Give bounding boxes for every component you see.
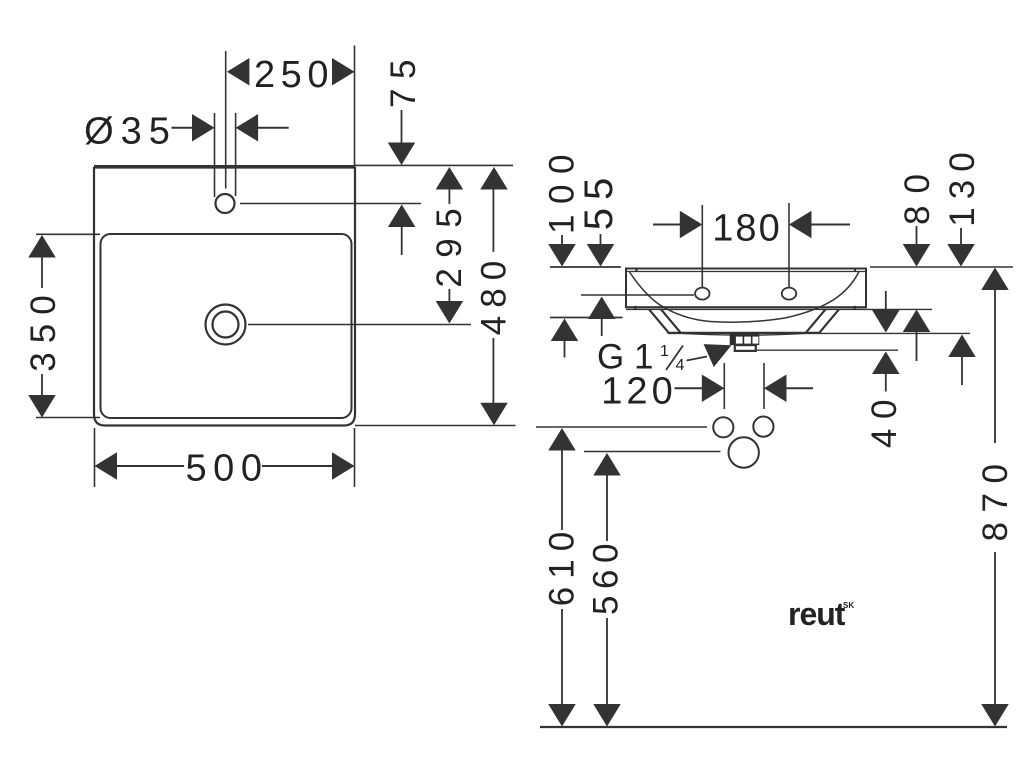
dimension 560 lower stem bbox=[606, 618, 608, 704]
dimension 870 lower stem bbox=[994, 552, 996, 704]
dimension 55 stem bbox=[600, 234, 602, 244]
dimension 295 arrow up bbox=[436, 167, 464, 190]
rim bevel tick top right bbox=[854, 269, 856, 272]
svg-text:870: 870 bbox=[976, 455, 1015, 542]
body bottom line bbox=[668, 332, 822, 334]
rim outline bbox=[626, 269, 866, 308]
dimension 120 extension right bbox=[763, 363, 765, 409]
dimension 100 arrow down bbox=[548, 244, 576, 267]
dimension 55 lower arrow up bbox=[588, 297, 616, 320]
dimension 870 upper stem bbox=[994, 290, 996, 443]
faucet hole bbox=[216, 194, 235, 213]
svg-text:4: 4 bbox=[676, 357, 685, 374]
taper right outer bbox=[820, 309, 840, 332]
body bottom sag curve bbox=[672, 333, 815, 335]
dimension 500 extension left bbox=[94, 428, 96, 487]
dimension 250 arrow left bbox=[227, 58, 250, 85]
dimension 500 extension right bbox=[354, 428, 356, 487]
dimension 560 arrow up bbox=[593, 453, 621, 476]
hole stem right bbox=[788, 203, 790, 287]
dimension 55 arrow down bbox=[587, 244, 615, 267]
reference line front lip bbox=[550, 317, 623, 319]
faucet hole centerline extension bbox=[240, 203, 421, 205]
dimension 350 upper stem bbox=[41, 258, 43, 289]
svg-text:Ø35: Ø35 bbox=[84, 111, 177, 153]
overflow hole left bbox=[695, 288, 709, 300]
drain flange slot 2 bbox=[744, 337, 751, 344]
drain centerline bbox=[584, 451, 721, 453]
svg-text:295: 295 bbox=[430, 198, 469, 288]
svg-text:100: 100 bbox=[543, 144, 582, 234]
rim bevel tick bottom left bbox=[634, 306, 636, 309]
body bottom extension right bbox=[821, 332, 970, 334]
basin inner bowl bbox=[101, 234, 352, 418]
dimension 500 left line bbox=[117, 465, 184, 467]
svg-text:reut: reut bbox=[788, 596, 846, 632]
reference line top right bbox=[870, 266, 1013, 268]
overflow hole right bbox=[782, 288, 796, 300]
svg-text:560: 560 bbox=[587, 537, 626, 615]
dimension 130 stem bbox=[960, 228, 962, 244]
dimension 80 stem bbox=[916, 226, 918, 244]
dimension 100 stem bbox=[561, 235, 563, 244]
drain hole center bbox=[729, 437, 759, 467]
dia35 arrow left bbox=[236, 114, 259, 142]
dimension 120 extension left bbox=[723, 363, 725, 409]
dimension 130 lower arrow up bbox=[948, 335, 976, 358]
dimension 870 arrow up bbox=[981, 268, 1009, 291]
dimension 480 arrow up bbox=[480, 167, 508, 190]
svg-text:120: 120 bbox=[601, 370, 676, 412]
dia35 leader left stem bbox=[172, 127, 193, 129]
basin top edge extension right bbox=[355, 164, 513, 166]
rim bevel tick bottom right bbox=[854, 306, 856, 309]
supply hole right bbox=[753, 417, 773, 437]
hole stem left bbox=[701, 205, 703, 287]
dimension 560 upper stem bbox=[606, 476, 608, 542]
basin inner curve bbox=[630, 272, 860, 323]
dimension 560 arrow down bbox=[593, 704, 621, 727]
dimension 130 arrow down bbox=[947, 244, 975, 267]
faucet hole centerline bbox=[225, 51, 227, 189]
rim bevel tick top left bbox=[635, 269, 637, 272]
basin top edge (thick) bbox=[94, 165, 355, 169]
dimension 295 upper stem bbox=[448, 189, 450, 205]
extension line right of 250 bbox=[354, 46, 356, 166]
svg-text:55: 55 bbox=[577, 170, 621, 231]
dimension 250 arrow right bbox=[332, 58, 355, 85]
svg-text:80: 80 bbox=[898, 162, 937, 225]
G leader arrow bbox=[704, 344, 732, 367]
dimension 180 left stem bbox=[653, 224, 680, 226]
dimension 55 lower stem bbox=[601, 319, 603, 336]
drain inner circle bbox=[213, 312, 239, 338]
dimension 610 arrow down bbox=[548, 704, 576, 727]
basin bottom edge extension bbox=[355, 425, 516, 427]
tailpipe bottom reference line bbox=[757, 349, 898, 351]
dimension 75 lower arrow up bbox=[388, 205, 416, 228]
dimension 500 arrow right bbox=[332, 452, 355, 480]
reference line top left bbox=[550, 266, 621, 268]
dimension 500 arrow left bbox=[95, 452, 118, 480]
dimension 350 lower stem bbox=[41, 374, 43, 395]
dimension 75 stem bbox=[401, 110, 403, 143]
dimension 870 arrow down bbox=[981, 704, 1009, 727]
dimension 295 lower stem bbox=[448, 289, 450, 301]
dimension 180 right stem bbox=[812, 224, 851, 226]
dimension 80 lower stem bbox=[916, 332, 918, 361]
taper left outer bbox=[649, 309, 669, 332]
svg-text:350: 350 bbox=[24, 286, 63, 371]
dimension 40 arrow up bbox=[872, 352, 900, 375]
svg-text:610: 610 bbox=[543, 524, 582, 606]
dimension 350 top extension bbox=[36, 233, 100, 235]
dimension 120 arrow left bbox=[764, 374, 787, 402]
dimension 500 right line bbox=[262, 465, 332, 467]
dimension 80 lower arrow up bbox=[903, 310, 931, 333]
dimension 610 arrow up bbox=[548, 428, 576, 451]
drain centerline extension bbox=[248, 324, 471, 326]
dimension 610 lower stem bbox=[561, 609, 563, 704]
dimension 180 arrow right bbox=[680, 211, 703, 239]
drain flange bbox=[730, 332, 760, 345]
dia35 arrow right bbox=[192, 114, 215, 142]
dimension 40 arrow down bbox=[872, 310, 900, 333]
dimension 40 lower stem bbox=[885, 374, 887, 392]
basin outer outline bbox=[94, 167, 355, 426]
G leader line bbox=[687, 357, 708, 361]
svg-text:130: 130 bbox=[943, 144, 982, 226]
rim bottom second line bbox=[626, 308, 866, 310]
dimension 40 upper stem bbox=[885, 291, 887, 310]
dimension 75 arrow down bbox=[388, 143, 416, 166]
taper left inner bbox=[661, 309, 681, 332]
svg-text:500: 500 bbox=[186, 448, 269, 490]
svg-text:SK: SK bbox=[843, 601, 854, 610]
drain outer circle bbox=[206, 305, 246, 345]
dimension 80 arrow down bbox=[903, 244, 931, 267]
drain tailpipe bbox=[735, 345, 756, 351]
drain flange slot 1 bbox=[736, 337, 743, 344]
dimension 480 lower stem bbox=[492, 338, 494, 403]
svg-text:40: 40 bbox=[865, 390, 904, 448]
overflow centerline bbox=[581, 294, 694, 296]
dimension 100 lower stem bbox=[564, 341, 566, 358]
supply hole left bbox=[713, 417, 733, 437]
dimension 350 arrow up bbox=[28, 235, 56, 258]
dimension 120 right stem bbox=[787, 387, 814, 389]
dimension 100 lower arrow up bbox=[551, 319, 579, 342]
taper right inner bbox=[806, 309, 826, 332]
dia35 tangent left bbox=[214, 113, 216, 197]
floor line bbox=[540, 726, 1007, 728]
svg-text:250: 250 bbox=[254, 54, 334, 96]
drain flange slot 3 bbox=[753, 337, 759, 344]
dimension 75 lower stem bbox=[401, 226, 403, 255]
supply centerline bbox=[536, 426, 707, 428]
dimension 130 lower stem bbox=[961, 357, 963, 385]
rim bottom extension right bbox=[866, 308, 932, 310]
dimension 120 left stem bbox=[675, 387, 703, 389]
dia35 leader right stem bbox=[258, 127, 289, 129]
svg-text:180: 180 bbox=[712, 208, 781, 250]
dimension 480 arrow down bbox=[480, 403, 508, 426]
dimension 120 arrow right bbox=[702, 374, 725, 402]
dimension 480 upper stem bbox=[492, 190, 494, 252]
dimension 350 arrow down bbox=[28, 395, 56, 418]
dimension 295 arrow down bbox=[436, 301, 464, 324]
dimension 180 arrow left bbox=[789, 211, 812, 239]
dia35 tangent right bbox=[235, 113, 237, 196]
svg-text:1: 1 bbox=[660, 343, 669, 360]
dimension 610 upper stem bbox=[561, 451, 563, 531]
dimension 350 bottom extension bbox=[36, 417, 100, 419]
svg-text:75: 75 bbox=[384, 50, 423, 108]
svg-text:480: 480 bbox=[475, 253, 514, 335]
rim deck inner line bbox=[626, 271, 866, 273]
fraction quarter slash bbox=[666, 346, 683, 371]
